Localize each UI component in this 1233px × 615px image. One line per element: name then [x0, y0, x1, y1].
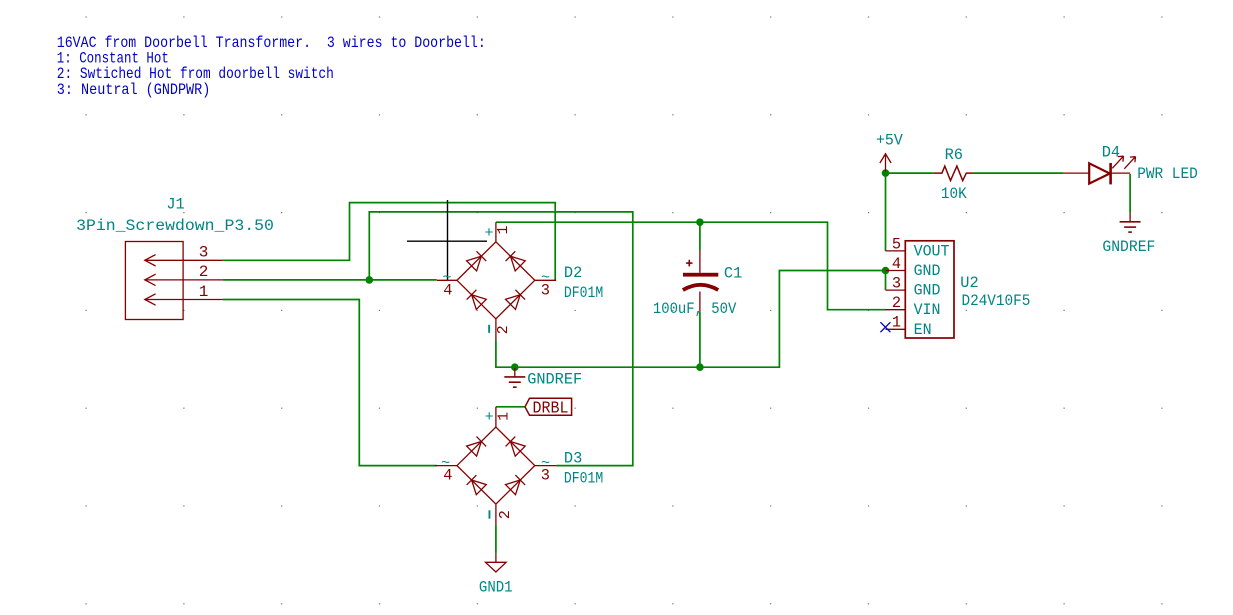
svg-text:GND: GND [914, 282, 941, 300]
svg-text:DF01M: DF01M [564, 284, 603, 302]
svg-text:C1: C1 [724, 264, 742, 282]
svg-text:100uF, 50V: 100uF, 50V [653, 300, 737, 318]
svg-text:+: + [484, 225, 493, 242]
svg-text:+: + [485, 409, 494, 426]
svg-text:GNDREF: GNDREF [527, 371, 582, 389]
svg-text:DF01M: DF01M [564, 470, 603, 488]
svg-text:1: 1 [199, 283, 209, 301]
svg-text:1: 1 [892, 314, 901, 332]
svg-text:U2: U2 [960, 274, 978, 292]
svg-text:3: 3 [892, 275, 901, 293]
svg-text:4: 4 [443, 281, 452, 299]
svg-text:D24V10F5: D24V10F5 [962, 292, 1031, 310]
svg-text:VIN: VIN [914, 301, 941, 319]
svg-text:3: 3 [541, 281, 550, 299]
svg-text:2: 2 [497, 510, 514, 519]
svg-text:3: Neutral (GNDPWR): 3: Neutral (GNDPWR) [57, 81, 211, 99]
svg-text:2: 2 [199, 263, 209, 281]
svg-text:EN: EN [914, 321, 932, 339]
svg-text:VOUT: VOUT [914, 242, 950, 260]
svg-text:3Pin_Screwdown_P3.50: 3Pin_Screwdown_P3.50 [76, 217, 274, 235]
svg-text:10K: 10K [941, 185, 968, 203]
svg-text:D3: D3 [564, 450, 582, 468]
svg-text:J1: J1 [166, 195, 184, 213]
svg-text:D2: D2 [564, 264, 582, 282]
svg-text:GND: GND [914, 262, 941, 280]
svg-text:1: 1 [495, 225, 512, 234]
svg-text:4: 4 [892, 255, 901, 273]
svg-text:D4: D4 [1102, 144, 1120, 162]
svg-text:2: 2 [495, 325, 512, 334]
svg-text:5: 5 [892, 235, 901, 253]
svg-text:3: 3 [541, 467, 550, 485]
svg-text:4: 4 [443, 467, 452, 485]
svg-text:PWR LED: PWR LED [1137, 165, 1198, 183]
svg-text:2: 2 [892, 294, 901, 312]
svg-text:GNDREF: GNDREF [1102, 238, 1155, 256]
svg-text:1: 1 [495, 412, 512, 421]
svg-text:3: 3 [199, 244, 209, 262]
svg-text:+5V: +5V [876, 131, 904, 149]
svg-text:DRBL: DRBL [533, 399, 569, 418]
svg-text:GND1: GND1 [479, 579, 513, 597]
svg-text:R6: R6 [945, 146, 963, 164]
